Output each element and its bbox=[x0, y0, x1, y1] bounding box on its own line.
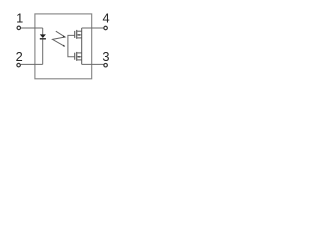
wire drain to pin 4 bbox=[82, 27, 104, 29]
light zigzag arrow bbox=[53, 31, 66, 46]
mosfet Q2 bbox=[75, 52, 82, 61]
wire LED cathode to pin 2 bbox=[21, 63, 43, 65]
pin 2 terminal bbox=[17, 63, 21, 67]
svg-text:4: 4 bbox=[103, 10, 110, 25]
LED D1 anode wire bbox=[42, 28, 44, 35]
wire pin1 to LED anode bbox=[21, 27, 43, 29]
svg-text:1: 1 bbox=[16, 10, 23, 25]
common gate wire bbox=[68, 35, 74, 56]
wire source to pin 3 bbox=[82, 63, 104, 65]
LED D1 triangle bbox=[40, 34, 46, 38]
drain-source rail bbox=[81, 28, 83, 64]
mosfet Q1 bbox=[75, 30, 82, 39]
package outline bbox=[35, 14, 92, 79]
LED D1 cathode wire bbox=[42, 39, 44, 64]
pin 4 terminal bbox=[104, 26, 108, 30]
pin 1 terminal bbox=[17, 26, 21, 30]
pin 3 terminal bbox=[104, 63, 108, 67]
LED D1 cathode bar bbox=[40, 38, 46, 40]
svg-text:3: 3 bbox=[102, 49, 109, 64]
svg-text:2: 2 bbox=[16, 49, 23, 64]
